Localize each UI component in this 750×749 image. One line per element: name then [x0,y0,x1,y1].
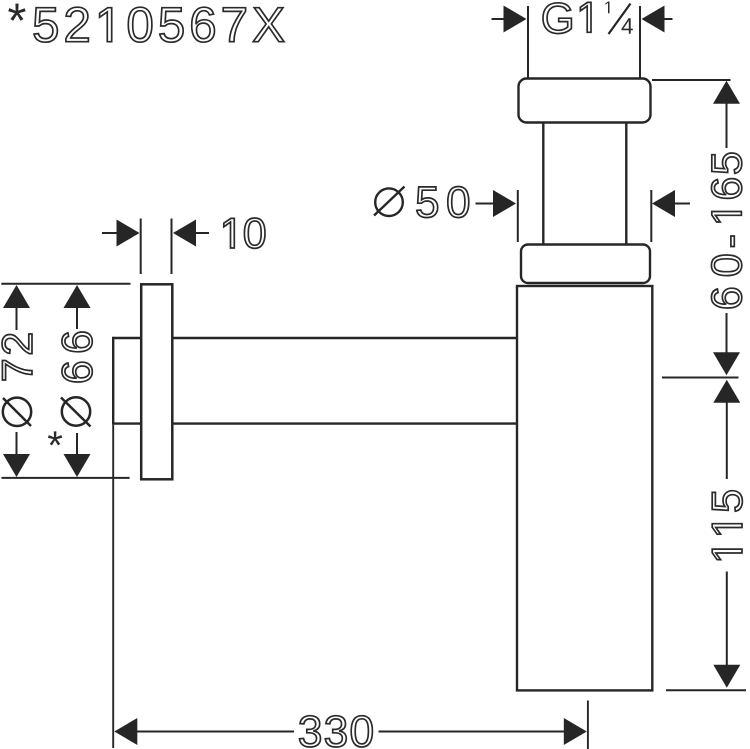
dim-60-165 up arrowhead [713,81,740,104]
dim-G right arrowhead [642,6,665,33]
dim-50 right arrowhead [652,190,675,217]
dim-60-165 mid tick line [662,377,739,379]
dim-50 left arrow tail [476,203,497,205]
dim-330 left arrowhead [114,718,137,745]
dim-G left arrow tail [492,18,508,20]
dim-G label 1 [580,2,591,32]
dim-66 up arrowhead [64,285,91,308]
dim-50 label [417,187,469,218]
dim-G ext line right [639,6,641,78]
dim-50 ext line left [517,190,519,242]
vertical inlet pipe left wall [542,123,544,245]
dim-66 down arrowhead [64,454,91,477]
dim-72 lower shaft [16,432,18,455]
dim-60-165 label part 60 [711,255,741,308]
dim-330 dim line left segment [137,731,294,733]
dim-10 extension line left [140,219,142,275]
dim-72 label digits [2,334,32,380]
dim-60-165 lower shaft [726,313,728,353]
dim-60-165 label hyphen [731,236,734,247]
dim-10 label [224,218,265,248]
dim-G label fraction slash [609,4,631,35]
outlet pipe end cap [112,337,114,425]
dim-50 right arrow tail [673,203,690,205]
dim-330 extension line right [587,701,589,749]
collar flange (rounded) [521,245,650,284]
left dims top extension line [1,283,130,285]
dim-66 upper shaft [76,306,78,329]
dim-72 upper shaft [16,306,18,330]
dim-G label fraction denominator 4 [622,18,633,34]
dim-10 right arrowhead [173,220,196,247]
dim-72 diameter symbol [3,398,31,426]
vertical inlet pipe right wall [625,123,627,245]
dim-10 left arrowhead [117,220,140,247]
dim-10 right arrow tail [194,232,209,234]
dim-G label G [543,3,571,34]
horizontal outlet pipe bottom wall [113,422,517,424]
dim-72 up arrowhead [3,285,30,308]
dim-66 diameter symbol [62,397,90,425]
dim-60-165 top extension line [652,79,731,81]
dim-330 dim line right segment [379,731,565,733]
dim-66 lower shaft [76,433,78,455]
dim-115 up arrowhead [713,380,740,403]
dim-10 extension line right [171,219,173,275]
part-number asterisk [8,4,26,21]
left dims bottom extension line [2,477,130,479]
dim-50 left arrowhead [493,190,516,217]
part-number text 5210567X [34,7,284,42]
dim-G left arrowhead [504,6,527,33]
dim-66 label digits [62,332,92,382]
dim-66 footnote asterisk [48,431,62,445]
dim-60-165 down arrowhead [713,352,740,375]
horizontal outlet pipe top wall [113,337,517,339]
dim-10 left arrow tail [102,232,118,234]
dim-50 diameter symbol [375,188,403,216]
dim-50 ext line right [650,190,652,242]
dim-G label fraction numerator 1 [605,2,609,14]
dim-G right arrow tail [663,18,673,20]
dim-115 down arrowhead [713,665,740,688]
dim-72 down arrowhead [3,454,30,477]
top nut (rounded) [519,79,651,123]
dim-330 right arrowhead [564,718,587,745]
dim-115 upper shaft [726,402,728,479]
wall escutcheon flange [141,284,172,479]
dim-60-165 label part 165 [711,153,741,222]
dim-60-165 upper shaft [726,103,728,148]
trap body [517,286,652,690]
dim-115 bottom extension line [666,689,746,691]
dim-330 label [300,716,373,747]
dim-G ext line left [527,6,529,78]
dim-115 label [712,491,742,560]
dim-115 lower shaft [726,572,728,667]
dim-330 extension line left [112,425,114,748]
